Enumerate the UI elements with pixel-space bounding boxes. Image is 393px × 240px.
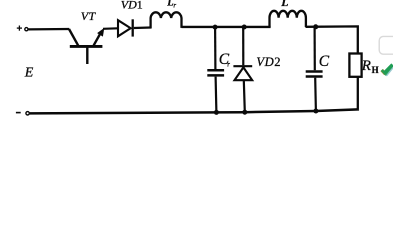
node junction dot bottom C (313, 109, 318, 114)
svg-text:C: C (319, 53, 330, 70)
VT base lead (86, 47, 88, 64)
terminal - input (26, 112, 29, 115)
C top lead (314, 27, 316, 71)
svg-text:r: r (173, 1, 176, 9)
VD2 triangle (235, 67, 253, 80)
VD2 top lead (242, 27, 244, 65)
VD1 cathode bar (132, 19, 134, 36)
VT collector diagonal (94, 31, 102, 46)
wire VD1 to Lr (134, 26, 151, 29)
Cr lower plate (207, 74, 224, 77)
svg-text:L: L (280, 0, 288, 8)
svg-text:H: H (372, 65, 379, 75)
label + (input polarity) (17, 26, 22, 31)
diode VD1 (118, 19, 133, 36)
C upper plate (306, 70, 323, 73)
wire mid rail Lr to L (182, 26, 271, 28)
node junction dot top C (313, 24, 318, 29)
node junction dot bottom VD2 (242, 110, 247, 115)
wire bottom rail (30, 109, 358, 113)
svg-text:R: R (361, 58, 371, 74)
inductor L (270, 11, 306, 28)
VD2 bottom lead (244, 80, 245, 112)
inductor Lr (151, 12, 182, 28)
terminal + input (25, 28, 28, 31)
wire top-right rail L to RH corner (306, 26, 358, 53)
C lower plate (306, 75, 323, 78)
svg-text:r: r (227, 60, 230, 68)
svg-text:VD1: VD1 (121, 0, 143, 12)
Cr bottom lead (215, 77, 218, 113)
Cr top lead (214, 27, 216, 69)
checkmark (green) (382, 65, 393, 76)
svg-text:E: E (24, 66, 34, 81)
VT emitter diagonal (69, 29, 78, 46)
svg-text:VD2: VD2 (256, 55, 281, 69)
C bottom lead (314, 78, 317, 111)
node junction dot bottom Cr (214, 110, 219, 115)
resistor RH (349, 54, 361, 77)
wire top-left from + terminal to VT emitter (28, 28, 69, 31)
capacitor Cr (207, 27, 224, 112)
wire VT arrow to VD1 anode (103, 27, 118, 30)
VD2 cathode bar (233, 65, 252, 67)
label - (input polarity) (16, 112, 21, 114)
Cr upper plate (207, 69, 224, 72)
node junction dot top Cr (213, 25, 218, 30)
UI panel fragment (gray rounded box, clipped at right edge) (379, 36, 393, 54)
VT collector arrowhead (97, 28, 104, 37)
wire RH bottom lead to bottom rail corner (357, 76, 359, 109)
diode VD2 (freewheeling, cathode up) (233, 27, 252, 112)
transistor VT (69, 29, 102, 64)
capacitor C (306, 27, 323, 111)
node junction dot top VD2 (242, 25, 247, 30)
VT base bar (70, 45, 103, 48)
svg-text:VT: VT (81, 9, 97, 23)
